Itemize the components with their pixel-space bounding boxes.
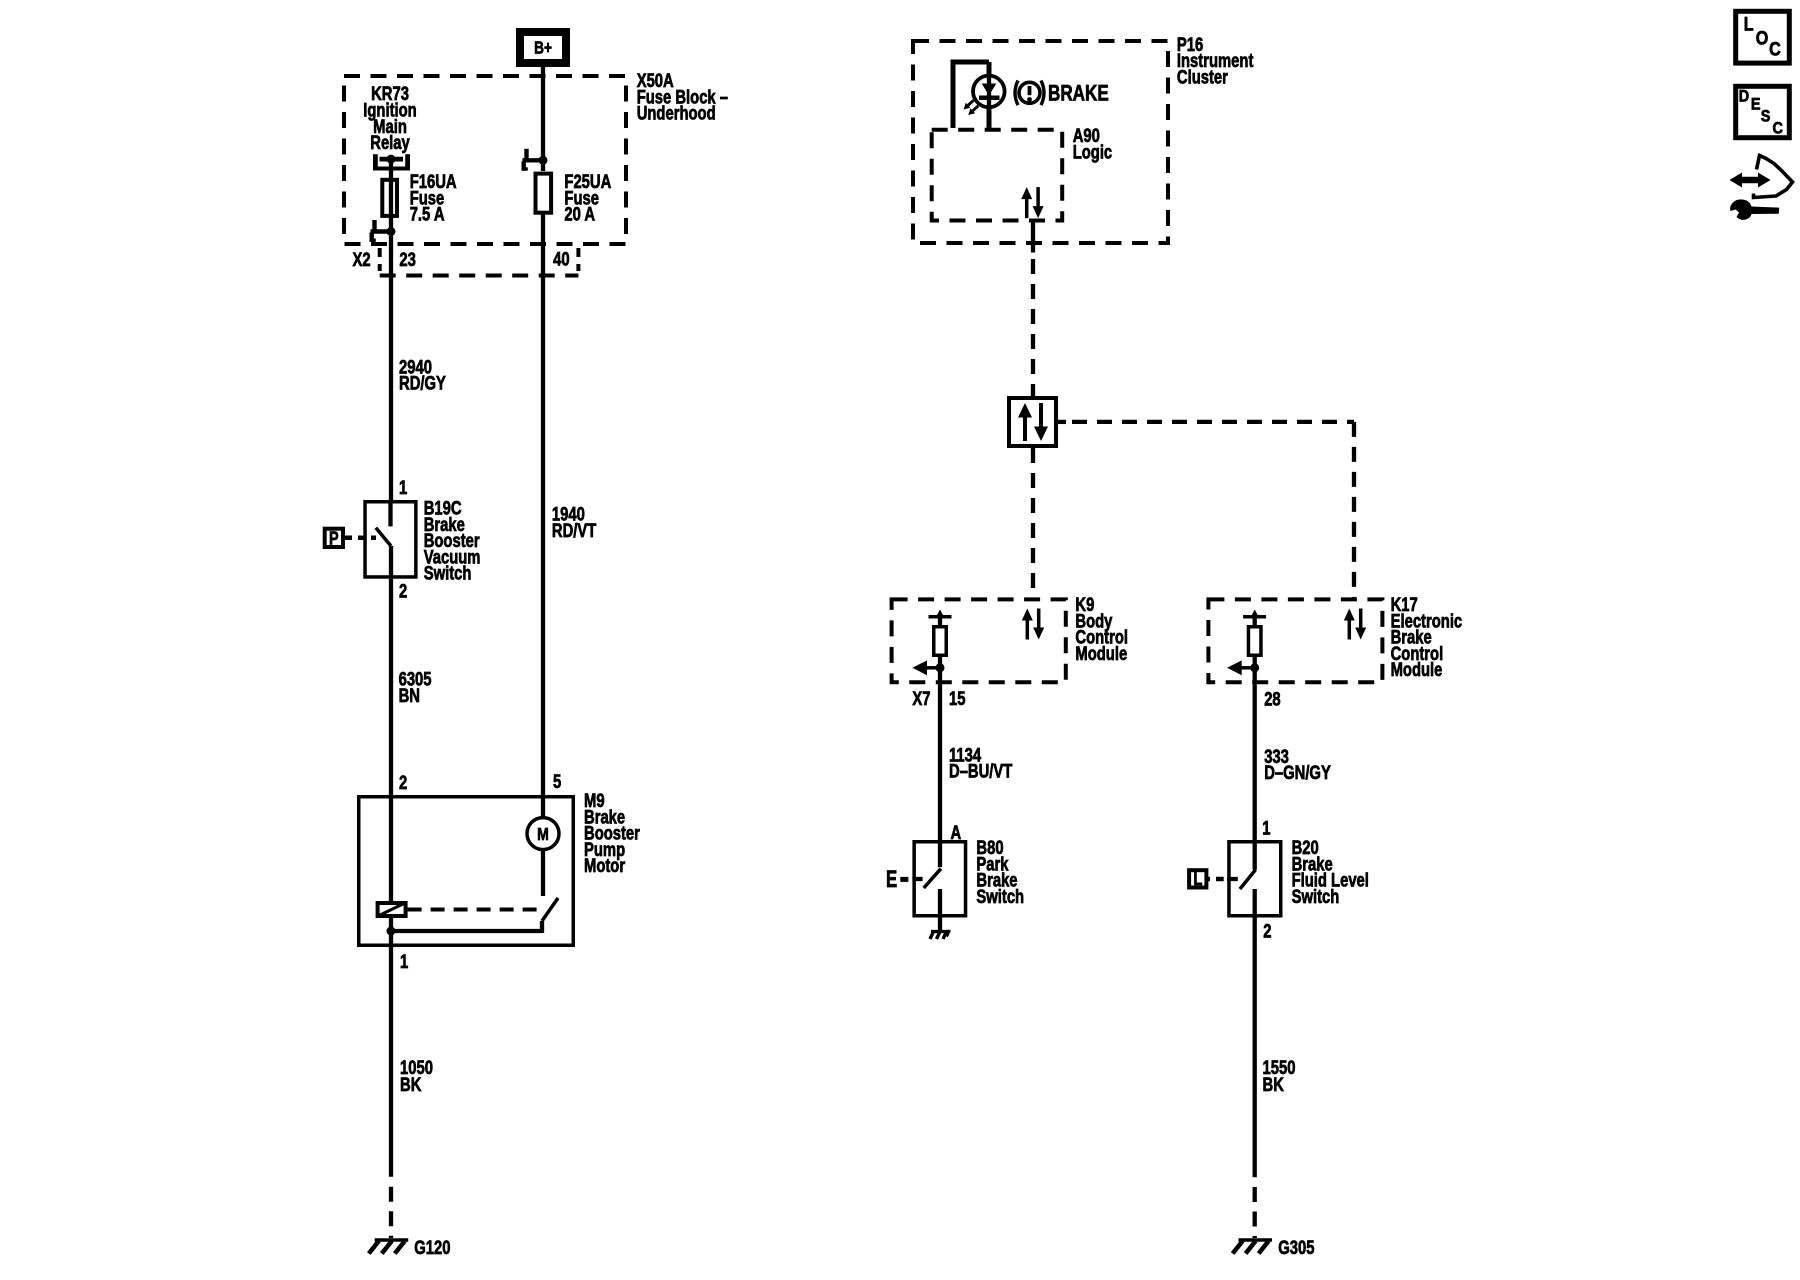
K17 input pullup: [1243, 615, 1266, 619]
body control module K9: [892, 599, 1066, 682]
svg-text:X2: X2: [353, 249, 371, 270]
svg-text:Switch: Switch: [424, 563, 472, 584]
electronic brake control module K17: [1208, 599, 1382, 682]
instrument cluster P16: [913, 41, 1168, 243]
wire 6305 BN: [389, 579, 393, 795]
relay KR73: [373, 154, 378, 168]
svg-text:40: 40: [553, 249, 569, 270]
wire 2940 RD/GY: [389, 246, 393, 500]
svg-text:X7: X7: [912, 688, 930, 709]
wire 1940 RD/VT: [541, 214, 545, 795]
wire 1550 BK: [1253, 918, 1257, 1178]
brake warning icon: [1019, 82, 1040, 103]
svg-text:G305: G305: [1278, 1237, 1314, 1258]
icon LOC: [1736, 11, 1790, 63]
svg-text:D–BU/VT: D–BU/VT: [949, 761, 1013, 782]
svg-text:2: 2: [399, 772, 407, 793]
relay coil M9: [378, 903, 406, 916]
icon wrench: [1730, 199, 1779, 220]
vacuum port P: [325, 529, 343, 547]
serial data arrows K17: [1348, 621, 1352, 640]
wire 1134 D-BU/VT: [938, 684, 942, 840]
svg-text:BN: BN: [399, 685, 420, 706]
wire 1050 BK: [389, 947, 393, 1177]
wire motor to contact: [541, 850, 545, 896]
svg-text:Switch: Switch: [976, 886, 1024, 907]
ground B80: [931, 930, 950, 933]
motor switch blade: [542, 898, 558, 921]
wire pin5 to motor: [541, 795, 545, 818]
icon full-size view arrow: [1741, 177, 1759, 184]
svg-text:P: P: [329, 528, 339, 549]
dashed wire to G305: [1253, 1187, 1257, 1238]
connector X2: [378, 248, 382, 271]
svg-text:E: E: [886, 866, 897, 893]
svg-text:2: 2: [1263, 921, 1271, 942]
svg-text:RD/VT: RD/VT: [552, 520, 597, 541]
icon DESC: [1736, 86, 1790, 137]
wire relay to connector: [389, 159, 393, 246]
svg-text:Module: Module: [1075, 643, 1127, 664]
motor M: [527, 818, 559, 850]
switch B19C: [365, 502, 416, 577]
K9 input pullup: [929, 615, 952, 619]
svg-text:L: L: [1193, 868, 1202, 889]
svg-text:Logic: Logic: [1073, 142, 1112, 163]
wire pin2 to relay coil: [389, 795, 393, 901]
svg-text:1: 1: [1262, 818, 1270, 839]
svg-text:2: 2: [399, 581, 407, 602]
logic module A90: [932, 130, 1062, 221]
serial data wire A90 down: [1031, 223, 1035, 253]
serial data junction box: [1009, 398, 1056, 446]
svg-text:B+: B+: [534, 39, 552, 58]
motor assembly M9: [359, 797, 574, 946]
serial wire box to K17: [1058, 420, 1066, 424]
svg-text:G120: G120: [414, 1237, 450, 1258]
fuse F25UA: [536, 174, 552, 213]
svg-text:E: E: [1751, 95, 1761, 113]
junction: [387, 927, 396, 936]
wire B80 to ground: [938, 918, 942, 931]
svg-text:D: D: [1739, 87, 1749, 105]
svg-text:S: S: [1761, 107, 1771, 125]
svg-text:BK: BK: [1263, 1074, 1285, 1095]
svg-text:1: 1: [399, 477, 407, 498]
fuse block X50A: [344, 76, 626, 244]
svg-text:23: 23: [399, 249, 415, 270]
svg-text:L: L: [1744, 13, 1754, 35]
serial data arrows K9: [1026, 621, 1030, 640]
terminal L boxed: [1189, 870, 1206, 887]
terminal clip F25UA: [524, 149, 528, 160]
svg-text:C: C: [1773, 120, 1783, 138]
svg-text:Motor: Motor: [584, 855, 625, 876]
wire 333 D-GN/GY: [1253, 684, 1257, 840]
svg-text:Cluster: Cluster: [1177, 67, 1228, 88]
terminal clip F16UA: [372, 220, 376, 231]
svg-text:M: M: [537, 824, 549, 844]
fuse F16UA: [382, 180, 397, 216]
svg-text:Module: Module: [1391, 659, 1443, 680]
LED indicator: [973, 76, 1005, 108]
K9 signal arrow: [926, 666, 940, 670]
ground G120: [375, 1238, 409, 1242]
svg-text:BRAKE: BRAKE: [1048, 81, 1109, 106]
svg-text:D–GN/GY: D–GN/GY: [1264, 762, 1331, 783]
switch B20: [1229, 842, 1281, 916]
svg-text:Underhood: Underhood: [637, 103, 716, 124]
switch B80: [914, 842, 965, 916]
svg-text:1: 1: [400, 951, 408, 972]
wire coil to junction: [389, 918, 393, 947]
serial data arrows A90: [1025, 199, 1029, 218]
dashed link P to switch: [345, 536, 376, 541]
svg-text:RD/GY: RD/GY: [399, 373, 446, 394]
svg-text:BK: BK: [400, 1074, 422, 1095]
svg-text:20 A: 20 A: [564, 204, 595, 225]
battery B+ terminal: [520, 32, 566, 63]
dashed wire to G120: [389, 1187, 393, 1238]
svg-text:O: O: [1756, 27, 1769, 49]
svg-text:Switch: Switch: [1292, 886, 1340, 907]
indicator loop: [951, 62, 956, 128]
K17 signal arrow: [1241, 666, 1255, 670]
wire B+ to F25UA: [541, 67, 545, 171]
svg-text:7.5 A: 7.5 A: [410, 204, 445, 225]
svg-text:28: 28: [1264, 689, 1280, 710]
wire junction to motor switch: [391, 929, 542, 933]
LED light arrows: [968, 100, 973, 105]
ground G305: [1239, 1238, 1273, 1242]
dashed link L to switch: [1216, 877, 1224, 882]
svg-text:C: C: [1769, 38, 1781, 60]
serial wire box to K9: [1031, 448, 1035, 597]
svg-text:Relay: Relay: [370, 132, 410, 153]
svg-text:5: 5: [553, 771, 561, 792]
svg-text:15: 15: [949, 688, 965, 709]
dashed link coil to blade: [408, 908, 540, 912]
